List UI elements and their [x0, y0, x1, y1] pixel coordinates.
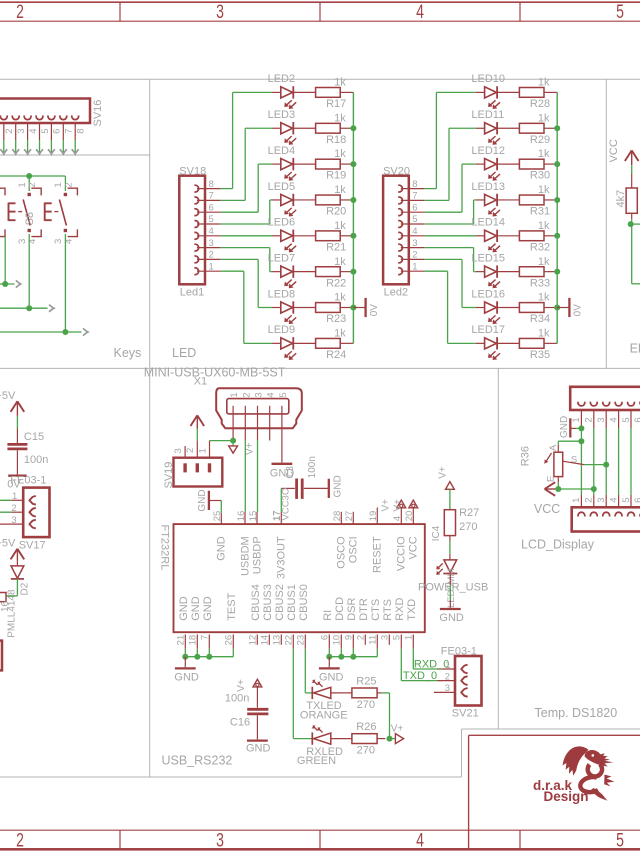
wire LCD column 3	[605, 410, 607, 507]
junctions on LED bus (SV18)	[350, 125, 356, 310]
switch S7 (partial, clipped)	[0, 182, 5, 244]
svg-text:GND: GND	[319, 672, 344, 684]
svg-text:270: 270	[357, 745, 375, 757]
svg-text:RXD_0: RXD_0	[414, 659, 449, 671]
resistor R32 1k	[497, 220, 557, 254]
LED LED8	[268, 288, 297, 324]
junction V+ node at R26	[387, 736, 393, 742]
svg-text:R24: R24	[326, 349, 346, 361]
power VCC arrow (EB)	[608, 139, 639, 165]
junctions LCD column 1	[578, 425, 584, 444]
svg-text:V+: V+	[236, 679, 247, 692]
connector SV21	[441, 645, 482, 719]
label FE03-1 (SV17)	[10, 474, 46, 486]
LED POWER_USB	[418, 560, 488, 608]
wire SV18 pin3 to LED7	[197, 248, 281, 272]
svg-text:1k: 1k	[538, 184, 550, 196]
svg-text:6: 6	[633, 417, 640, 422]
wire LCD column 1	[580, 410, 582, 507]
svg-text:4: 4	[28, 129, 39, 134]
ground GND below POWER_USB LED	[439, 609, 464, 624]
svg-text:CBUS1: CBUS1	[286, 584, 298, 621]
ground GND below pin21	[174, 657, 199, 684]
svg-text:3: 3	[173, 448, 184, 453]
svg-text:1k: 1k	[538, 112, 550, 124]
LCD bottom header pin numbers	[571, 498, 640, 503]
svg-text:R25: R25	[356, 675, 376, 687]
SV17 pin wires	[0, 500, 23, 524]
svg-text:RTS: RTS	[382, 599, 394, 621]
svg-text:S8: S8	[24, 212, 36, 225]
svg-text:3: 3	[445, 683, 450, 694]
svg-text:1k: 1k	[538, 256, 550, 268]
wire switch S7 lower leg	[4, 237, 6, 284]
junction VCC at R36 bottom	[555, 486, 561, 492]
svg-text:Led1: Led1	[180, 287, 204, 299]
svg-text:4: 4	[416, 829, 424, 851]
power +5V arrow at C15	[0, 390, 24, 416]
wire SV19 pin3 stub	[184, 446, 186, 458]
power V+ above R27	[438, 466, 455, 489]
svg-text:GND: GND	[197, 489, 208, 511]
wire SV20 pin7 to LED11	[401, 128, 485, 200]
svg-text:1k: 1k	[334, 292, 346, 304]
svg-text:V+: V+	[245, 442, 256, 455]
wire FT232 pin22 to RXLED	[293, 649, 312, 739]
switch S8	[9, 182, 42, 244]
wire R25 to V+ node	[382, 693, 390, 739]
wire SV20 pin8 to LED10	[401, 92, 485, 188]
wire LCD column 2	[593, 410, 595, 507]
svg-text:GND: GND	[439, 612, 464, 624]
power V+ above C16	[236, 679, 262, 692]
svg-text:GND: GND	[559, 416, 570, 438]
power VCC arrow (LCD)	[545, 482, 557, 496]
ground GND below C16	[246, 741, 271, 755]
svg-text:X1: X1	[194, 375, 207, 387]
svg-text:GND: GND	[202, 596, 214, 621]
wire SV20 pin4 to LED14	[401, 235, 485, 237]
svg-text:1: 1	[571, 417, 582, 422]
svg-text:5: 5	[40, 129, 51, 134]
svg-text:R36: R36	[519, 446, 531, 466]
switch S9	[45, 182, 78, 244]
wire R36 wiper to LCD pin3	[563, 461, 607, 464]
svg-text:LED15: LED15	[471, 252, 505, 264]
svg-text:3V3OUT: 3V3OUT	[275, 536, 287, 579]
svg-text:LED11: LED11	[471, 109, 504, 121]
svg-text:CBUS3: CBUS3	[262, 584, 274, 621]
X1 pin numbers	[229, 392, 289, 397]
junction key row 3	[62, 329, 68, 335]
wire TXD_0 (FT232 RXD to SV21 pin2)	[401, 649, 455, 683]
svg-text:270: 270	[459, 521, 477, 533]
svg-text:IC4: IC4	[431, 525, 442, 541]
FT232 bottom pin names	[178, 584, 418, 621]
svg-text:1k: 1k	[334, 220, 346, 232]
wire FT232 GND pins 21/18/7/26	[185, 649, 233, 657]
svg-text:LED10: LED10	[471, 73, 505, 85]
svg-text:270: 270	[357, 699, 375, 711]
connector LCD top header	[570, 387, 640, 410]
svg-text:FE03-1: FE03-1	[10, 474, 46, 486]
resistor R22 1k	[293, 256, 353, 290]
wire X1 pin1 to SV19 pin1	[210, 440, 234, 442]
svg-text:C16: C16	[230, 717, 250, 729]
svg-text:R31: R31	[530, 206, 550, 218]
LED LED4	[268, 145, 297, 181]
resistor R27 270	[444, 507, 479, 536]
svg-text:GND: GND	[178, 596, 190, 621]
svg-text:1k: 1k	[334, 77, 346, 89]
wire FT232 pin23 to TXLED	[305, 649, 312, 693]
svg-text:5: 5	[616, 1, 624, 23]
svg-text:LED3: LED3	[268, 109, 296, 121]
power V+ arrows at FT232 pins 4 and 20	[381, 499, 418, 524]
label MINI-USB-UX60-MB-5ST	[144, 366, 286, 380]
svg-text:C3: C3	[285, 466, 296, 479]
svg-text:R32: R32	[530, 241, 550, 253]
svg-text:1k: 1k	[334, 327, 346, 339]
power +5V arrow at D2	[0, 537, 24, 561]
svg-text:1k: 1k	[334, 184, 346, 196]
svg-text:4: 4	[608, 498, 619, 503]
svg-text:2: 2	[241, 392, 252, 397]
wire SV19 pin1 lead	[209, 441, 211, 458]
svg-text:3: 3	[596, 417, 607, 422]
X1 pin leads	[233, 406, 282, 441]
svg-text:R27: R27	[459, 507, 479, 519]
power V+ symbol at X1 pin 1	[229, 438, 256, 455]
svg-text:1: 1	[445, 660, 450, 671]
wire R27 to POWER_USB LED	[449, 536, 451, 560]
ground GND at FT232 pin25	[197, 489, 221, 524]
wire POWER_USB LED to GND	[449, 574, 451, 608]
resistor R29 1k	[497, 112, 557, 146]
junction key row 1	[2, 281, 8, 287]
wire switch S8 lower leg	[28, 234, 30, 308]
junction key row 2	[26, 305, 32, 311]
LED LED9	[268, 324, 297, 360]
wire R37 to net (EB)	[630, 213, 640, 283]
svg-text:2: 2	[63, 182, 74, 187]
svg-text:3: 3	[596, 498, 607, 503]
capacitor C16 100n	[225, 687, 269, 740]
svg-text:1k: 1k	[538, 148, 550, 160]
svg-text:RXD: RXD	[394, 598, 406, 621]
wire VCC to R36 bottom and LCD pin2	[556, 477, 593, 489]
svg-text:R19: R19	[326, 170, 346, 182]
svg-text:V+: V+	[438, 466, 449, 479]
svg-text:R30: R30	[530, 170, 550, 182]
svg-text:3: 3	[16, 129, 27, 134]
svg-text:2: 2	[27, 182, 38, 187]
svg-text:6: 6	[633, 498, 640, 503]
wire LED bus (SV18)	[352, 92, 354, 343]
svg-text:GND: GND	[174, 672, 199, 684]
resistor R17 1k	[293, 77, 353, 111]
LED LED16	[471, 288, 505, 324]
svg-text:1k: 1k	[538, 77, 550, 89]
wire switch S9 lower leg	[64, 234, 66, 332]
svg-text:LED13: LED13	[471, 181, 505, 193]
svg-text:1k: 1k	[334, 256, 346, 268]
LED LED6	[268, 217, 297, 253]
clipped connector at left edge	[0, 641, 2, 671]
wire VCC to R37	[631, 165, 633, 188]
svg-text:Keys: Keys	[114, 346, 142, 360]
svg-text:15: 15	[248, 511, 259, 522]
svg-text:2: 2	[4, 129, 15, 134]
LED LED13	[471, 181, 505, 217]
svg-text:1k: 1k	[334, 148, 346, 160]
svg-text:RI: RI	[322, 610, 334, 621]
wire LCD columns 4-6	[619, 410, 640, 507]
resistor R33 1k	[497, 256, 557, 290]
FT232 bottom pin numbers	[176, 635, 415, 646]
wire X1 pin3 to FT232 pin15 (USBDP)	[256, 440, 259, 524]
svg-text:R33: R33	[530, 277, 550, 289]
svg-text:V+: V+	[391, 723, 404, 734]
svg-text:GND: GND	[215, 536, 227, 561]
svg-text:0V: 0V	[369, 304, 380, 317]
SV21 pin numbers	[445, 660, 451, 694]
connector SV17	[19, 488, 50, 552]
svg-text:1k: 1k	[538, 292, 550, 304]
wire SV18 pin2 to LED8	[197, 259, 281, 307]
svg-text:RESET: RESET	[371, 536, 383, 573]
svg-text:DSR: DSR	[346, 598, 358, 621]
svg-text:GND: GND	[246, 742, 271, 754]
wire X1 pin2 to FT232 pin16 (USBDM)	[244, 441, 246, 524]
resistor R31 1k	[497, 184, 557, 218]
resistor R24 1k	[293, 327, 353, 361]
svg-text:CTS: CTS	[370, 599, 382, 621]
svg-text:3: 3	[216, 1, 224, 23]
wire SV20 pin2 to LED16	[401, 259, 485, 307]
svg-text:3: 3	[216, 829, 224, 851]
svg-text:LED: LED	[172, 346, 196, 360]
svg-text:OSCI: OSCI	[347, 536, 359, 563]
svg-text:2: 2	[185, 448, 196, 453]
ground 0V (SV20)	[557, 298, 584, 317]
resistor R34 1k	[497, 292, 557, 326]
wire SV18 pin7 to LED3	[197, 128, 281, 200]
SV16 pin wires and off-sheet arrows	[0, 123, 78, 156]
ground GND at LCD pin1	[559, 416, 582, 438]
wire SV18 pin4 to LED6	[197, 235, 281, 237]
svg-text:16: 16	[0, 600, 11, 612]
svg-text:R28: R28	[530, 98, 550, 110]
svg-text:2: 2	[16, 829, 24, 851]
junction X1 pin1	[230, 438, 236, 444]
svg-text:1k: 1k	[538, 327, 550, 339]
svg-text:8: 8	[76, 129, 87, 134]
resistor R35 1k	[497, 327, 557, 361]
resistor R26 270	[331, 721, 386, 757]
FT232 top pin names	[215, 536, 419, 579]
resistor R25 270	[331, 675, 382, 711]
svg-text:R21: R21	[326, 241, 346, 253]
svg-text:2: 2	[0, 182, 2, 187]
svg-text:1k: 1k	[334, 112, 346, 124]
junction LCD column 2 VCC	[591, 486, 597, 492]
svg-text:SV17: SV17	[19, 539, 46, 551]
wire LED bus (SV20)	[556, 92, 558, 343]
svg-text:4: 4	[266, 392, 277, 397]
wire key row 2 with off-sheet arrow	[0, 305, 56, 312]
logo d.r.a.k Design text	[533, 778, 589, 804]
svg-text:1: 1	[229, 392, 240, 397]
svg-text:ORANGE: ORANGE	[300, 710, 348, 722]
FT232 bottom pin stubs	[185, 635, 413, 649]
svg-text:TXD: TXD	[406, 599, 418, 621]
wire R36 top to GND net	[558, 441, 581, 452]
svg-text:LED14: LED14	[471, 217, 505, 229]
svg-text:R29: R29	[530, 134, 550, 146]
svg-text:LED4: LED4	[268, 145, 296, 157]
svg-text:VCC: VCC	[534, 502, 560, 516]
LED TXLED (orange)	[300, 679, 348, 722]
svg-text:SV16: SV16	[92, 100, 104, 127]
connector SV16	[0, 99, 104, 127]
LED LED12	[471, 145, 505, 181]
svg-text:2: 2	[445, 671, 450, 682]
resistor R21 1k	[293, 220, 353, 254]
svg-text:LED9: LED9	[268, 324, 296, 336]
capacitor C15 100n	[7, 431, 48, 475]
ground 0V below C15	[7, 476, 26, 491]
svg-text:5: 5	[616, 829, 624, 851]
SV16 pin numbers	[4, 129, 86, 134]
svg-text:V+: V+	[393, 499, 404, 512]
svg-text:GREEN: GREEN	[297, 755, 336, 767]
svg-text:4k7: 4k7	[615, 190, 627, 208]
svg-text:LED2: LED2	[268, 73, 296, 85]
svg-text:LED7: LED7	[268, 252, 296, 264]
svg-text:SV20: SV20	[383, 166, 410, 178]
logo dragon	[563, 746, 615, 800]
svg-text:SV18: SV18	[179, 166, 206, 178]
wire key row 3 with off-sheet arrow	[0, 328, 90, 335]
connector SV20	[383, 166, 410, 299]
svg-text:USBDP: USBDP	[251, 536, 263, 574]
LED LED7	[268, 252, 297, 288]
wire +5V to C15	[16, 416, 18, 443]
svg-text:D2: D2	[19, 582, 30, 595]
svg-text:2: 2	[16, 1, 24, 23]
svg-text:1k: 1k	[538, 220, 550, 232]
svg-text:4: 4	[608, 417, 619, 422]
resistor R18 1k	[293, 112, 353, 146]
LED LED5	[268, 181, 297, 217]
svg-text:R17: R17	[326, 98, 346, 110]
svg-text:5: 5	[278, 392, 289, 397]
connector LCD bottom header	[572, 507, 640, 531]
LED RXLED (green)	[297, 725, 343, 768]
LED LED2	[268, 73, 297, 109]
LED LED14	[471, 217, 505, 253]
frame bottom border	[0, 829, 640, 851]
wire key row 1 with off-sheet arrow	[0, 280, 23, 287]
SV17 pin numbers	[11, 491, 17, 526]
connector SV18	[179, 166, 206, 299]
svg-text:DCD: DCD	[334, 597, 346, 621]
svg-text:6: 6	[52, 129, 63, 134]
title block border	[469, 735, 640, 849]
svg-text:4: 4	[416, 1, 424, 23]
resistor R23 1k	[293, 292, 353, 326]
svg-text:LED6: LED6	[268, 217, 296, 229]
svg-text:VCCIO: VCCIO	[395, 536, 407, 571]
wire SV18 pin8 to LED2	[197, 92, 281, 188]
connector SV19	[163, 458, 222, 489]
svg-text:DTR: DTR	[358, 598, 370, 621]
LCD top header pin numbers	[571, 417, 640, 422]
wire FT232 GND pins 6/10/9/11	[329, 649, 377, 657]
svg-text:+5V: +5V	[0, 390, 16, 402]
svg-text:EB: EB	[630, 342, 640, 356]
svg-text:LCD_Display: LCD_Display	[521, 538, 595, 552]
svg-text:VCC: VCC	[407, 536, 419, 559]
svg-text:CBUS0: CBUS0	[298, 584, 310, 621]
svg-text:LED5: LED5	[268, 181, 296, 193]
section labels	[114, 346, 618, 768]
svg-text:OSCO: OSCO	[335, 536, 347, 569]
svg-text:CBUS2: CBUS2	[274, 584, 286, 621]
svg-text:LED12: LED12	[471, 145, 505, 157]
ground GND below pin6	[319, 657, 344, 684]
wire D2 to clipped component	[6, 579, 17, 596]
svg-text:FT232RL: FT232RL	[158, 525, 170, 571]
wire SV20 pin6 to LED12	[401, 164, 485, 212]
wire SV20 pin5 to LED13	[401, 200, 485, 224]
svg-text:7: 7	[64, 129, 75, 134]
IC4 designator	[431, 525, 442, 541]
LED LED3	[268, 109, 297, 145]
label VCC (LCD)	[534, 502, 560, 516]
SV19 pin numbers	[173, 448, 208, 454]
svg-text:Led2: Led2	[384, 287, 408, 299]
wire C3 to FT232 pin17 (VCC3O)	[272, 488, 292, 524]
IC U1 FT232RL body	[158, 524, 425, 632]
svg-text:MINI-USB-UX60-MB-5ST: MINI-USB-UX60-MB-5ST	[144, 366, 286, 380]
frame top border	[0, 1, 640, 23]
svg-text:USB_RS232: USB_RS232	[162, 754, 233, 768]
svg-text:SV21: SV21	[452, 708, 479, 720]
svg-text:+5V: +5V	[0, 537, 16, 549]
svg-text:FE03-1: FE03-1	[441, 645, 477, 657]
wire keys top bus	[0, 176, 65, 191]
svg-text:R26: R26	[356, 721, 376, 733]
ground GND at X1 pin5	[270, 441, 295, 480]
power V+ symbol right of R26	[390, 723, 404, 743]
wire SV20 pin3 to LED15	[401, 248, 485, 272]
svg-text:R34: R34	[530, 313, 550, 325]
capacitor C3 100n	[281, 456, 328, 499]
power VCC arrow at SV19	[191, 415, 205, 428]
wire SV18 pin5 to LED5	[197, 200, 281, 224]
svg-text:R35: R35	[530, 349, 550, 361]
wire V+ to R27	[449, 489, 451, 509]
svg-text:5: 5	[621, 498, 632, 503]
junctions on LED bus (SV20)	[554, 125, 560, 310]
junction LCD column 3 wiper	[603, 462, 609, 468]
junction keys bus	[26, 173, 32, 179]
svg-text:USBDM: USBDM	[239, 536, 251, 576]
svg-text:17: 17	[272, 511, 283, 522]
wire VCC to SV19 pin2	[196, 429, 198, 458]
